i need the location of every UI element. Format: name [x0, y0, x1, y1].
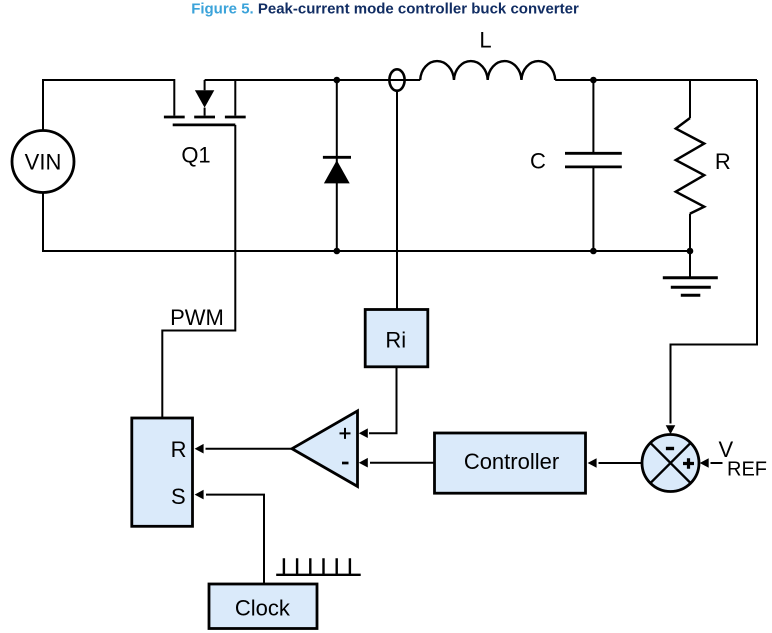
- svg-text:REF: REF: [727, 459, 767, 481]
- junction switch node: [334, 77, 341, 84]
- arrowhead into controller: [588, 458, 597, 468]
- svg-text:R: R: [171, 437, 187, 462]
- svg-text:Figure 5. Peak-current mode co: Figure 5. Peak-current mode controller b…: [191, 1, 579, 18]
- block Clock: [209, 584, 317, 629]
- wire controller to comparator minus input: [370, 462, 435, 464]
- wire VREF stub: [711, 462, 723, 464]
- svg-text:S: S: [171, 484, 186, 509]
- svg-text:L: L: [479, 27, 491, 52]
- arrowhead into summing top: [666, 425, 676, 434]
- ground: [663, 251, 718, 295]
- svg-text:R: R: [715, 149, 731, 174]
- voltage source VIN: [12, 131, 74, 193]
- svg-text:Controller: Controller: [464, 449, 559, 474]
- junction C top: [590, 77, 597, 84]
- block Controller: [435, 433, 586, 493]
- junction R bottom: [687, 248, 694, 255]
- wire clock to latch S input: [206, 495, 264, 584]
- capacitor C: [565, 80, 622, 251]
- svg-text:VIN: VIN: [25, 150, 62, 175]
- wire summing node to controller: [599, 462, 643, 464]
- wire comparator output to latch R: [206, 448, 293, 450]
- label summing plus: [683, 458, 694, 469]
- wire Ri to comparator plus input: [369, 367, 397, 433]
- svg-text:C: C: [530, 148, 546, 173]
- transistor Q1: [164, 80, 246, 125]
- wire PWM gate drive: [162, 125, 235, 418]
- current sense probe: [389, 69, 404, 90]
- wire inductor to output node: [555, 79, 757, 81]
- wire current sense to Ri: [396, 91, 398, 310]
- svg-text:Ri: Ri: [385, 328, 406, 353]
- label plus input: [340, 428, 351, 439]
- wire VIN top to Q1 source: [43, 80, 174, 131]
- arrowhead into comparator minus: [359, 458, 368, 468]
- arrowhead into latch S: [195, 490, 204, 500]
- arrowhead into latch R input: [195, 444, 204, 454]
- resistor R: [676, 80, 704, 251]
- wire Q1 drain to current probe: [205, 79, 421, 81]
- junction diode anode: [334, 248, 341, 255]
- clock waveform: [276, 558, 361, 575]
- inductor L: [420, 61, 555, 80]
- wire bottom rail: [43, 193, 690, 252]
- label minus input: [342, 462, 349, 465]
- arrowhead into summing right: [700, 458, 709, 468]
- summing junction: [642, 435, 699, 492]
- wire output feedback to summing node: [671, 80, 758, 424]
- diode D1: [323, 80, 351, 251]
- svg-text:Clock: Clock: [235, 595, 291, 620]
- label summing minus: [666, 447, 674, 450]
- arrowhead into comparator plus: [359, 428, 368, 438]
- op-amp comparator U1: [292, 411, 358, 487]
- junction C bottom: [590, 248, 597, 255]
- block Ri: [365, 310, 428, 367]
- svg-text:Q1: Q1: [181, 143, 210, 168]
- svg-text:PWM: PWM: [170, 305, 224, 330]
- latch block RS: [132, 418, 193, 526]
